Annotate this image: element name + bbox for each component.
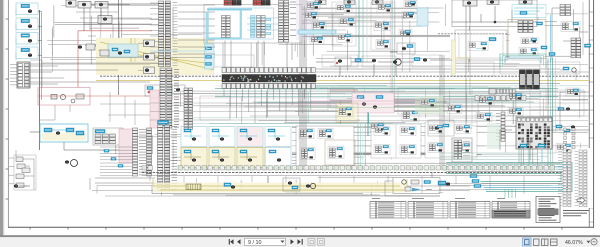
main harness connector X2 column A — [160, 68, 165, 128]
toolbar zoom-out button — [591, 239, 597, 245]
connector P1 — [10, 62, 30, 88]
green tint left of matrix — [487, 123, 500, 149]
sensor S1 top — [184, 129, 201, 141]
vertical bus bundle right-center — [391, 0, 395, 110]
cluster G7 — [400, 127, 416, 136]
long wire y190 — [92, 190, 470, 192]
cell grid right — [265, 148, 291, 168]
sensor cluster C2 — [304, 12, 318, 20]
harness loop drops — [505, 189, 516, 198]
wire bundle left vertical — [40, 10, 42, 150]
wire mesh zone top-right — [454, 2, 588, 72]
toolbar zoom dropdown — [587, 241, 591, 244]
magenta wires mid — [150, 98, 440, 108]
yellow harness band — [153, 183, 407, 193]
terminal strip TB1 bottom row — [222, 84, 315, 89]
teal vertical pair — [359, 0, 367, 62]
manifold connector row — [489, 89, 515, 95]
junction box — [66, 0, 76, 7]
cyan tags far right — [541, 46, 555, 56]
toolbar view icon 2 — [534, 239, 540, 245]
schematic border left — [7, 0, 9, 227]
cyan tag R7 — [585, 44, 591, 47]
long wire bottom — [16, 186, 152, 194]
tan box mid — [325, 140, 355, 165]
control block A1 — [30, 124, 88, 142]
dashed bus wire — [100, 75, 589, 77]
relay RL2 — [71, 99, 75, 103]
sensor cluster C4 — [310, 36, 324, 44]
connector X3 — [184, 88, 193, 130]
component row D4 — [393, 59, 401, 65]
component boxes left of X1 — [138, 40, 155, 74]
toolbar zoom text — [565, 240, 583, 246]
teal bundle mid — [358, 124, 365, 170]
ECU wire drops — [225, 41, 292, 69]
notes box — [536, 197, 560, 223]
ECM left wires — [100, 147, 133, 176]
top edge box T1 — [315, 0, 326, 5]
cluster right edge C — [558, 108, 570, 111]
enclosure box top-right — [452, 0, 537, 27]
gray bus pair upper — [316, 66, 589, 72]
toolbar icon expand — [318, 239, 325, 246]
grid outlines G2 — [425, 122, 477, 158]
green tint region — [415, 96, 443, 114]
component G1 — [14, 185, 28, 188]
pink panel ECM — [119, 129, 133, 163]
yellow cells region — [181, 148, 265, 168]
sensor S7 bottom — [240, 150, 257, 162]
ECM connector tall — [158, 121, 178, 191]
inline connector Y1 — [186, 184, 201, 190]
harness loop tags — [470, 175, 481, 188]
component S1 — [78, 44, 95, 50]
ECU U1 socket cells B — [265, 19, 271, 35]
cluster G2 — [318, 129, 333, 139]
connector P9 — [560, 5, 571, 16]
matrix cyan tags — [520, 144, 545, 147]
top edge box T3 — [372, 0, 383, 5]
toolbar first-page button — [229, 239, 233, 245]
wire mesh zone top-left — [47, 5, 215, 72]
sensor cluster R6 — [561, 22, 580, 32]
yellow strip right — [452, 40, 471, 74]
cluster right edge D — [556, 125, 575, 132]
matrix side ladder — [496, 112, 505, 141]
cyan dot ECM1 — [104, 150, 109, 153]
sensor cluster R2 — [521, 38, 538, 44]
title text block — [563, 211, 589, 216]
connector P20 column — [558, 150, 571, 207]
red power wire — [78, 31, 152, 88]
vertical bus bundle center — [300, 0, 306, 170]
ECU U1 socket column — [251, 16, 256, 38]
wire mesh zone mid — [157, 85, 588, 124]
switch cluster SW — [9, 150, 36, 190]
schematic border right inner — [588, 0, 590, 227]
green row drops — [150, 176, 524, 194]
box far right mid — [428, 120, 454, 136]
yellow harness region — [96, 38, 214, 75]
pin grid block R1 — [518, 21, 543, 33]
sensor cluster C13 — [399, 30, 412, 37]
solenoid unit M1 — [16, 3, 42, 17]
terminal strip TB1 body — [222, 75, 316, 83]
relay K2 — [95, 2, 108, 9]
main harness connector X2 labels — [174, 69, 179, 127]
ECU module U1 outline — [204, 5, 302, 44]
cluster mid F1 — [478, 97, 494, 106]
component Y2 — [224, 183, 235, 189]
solenoid unit M3 — [16, 33, 42, 47]
cluster G8 — [400, 145, 416, 155]
ECU U1 pin field B — [257, 16, 266, 38]
harness frame wire — [152, 185, 363, 194]
wire mesh zone lower — [116, 127, 588, 170]
solenoid unit M4 — [16, 47, 42, 61]
cluster mid F2 — [476, 113, 492, 122]
toolbar page field — [245, 238, 286, 246]
component row D3 — [372, 59, 376, 62]
main harness connector X1 labels — [173, 2, 178, 65]
wire drop K2 — [100, 8, 102, 16]
sensor cluster C12 — [402, 12, 415, 19]
wire block A1 drop — [64, 142, 130, 150]
connector P10 — [571, 38, 581, 58]
toolbar top border — [0, 235, 600, 237]
pink panel X2 — [150, 90, 159, 128]
long wire y196 — [105, 195, 440, 197]
sensor cluster C3 — [312, 22, 326, 30]
sensor cluster C9 — [374, 22, 390, 31]
cluster mid F4 — [508, 108, 523, 116]
sensor cluster C7 — [337, 34, 352, 43]
sensor S6 bottom — [212, 150, 229, 162]
junction block J5 — [463, 0, 477, 6]
sensor cluster C1 — [306, 2, 320, 10]
toolbar icon shrink — [308, 239, 315, 246]
relay K1 — [78, 2, 91, 9]
connector P22 rows — [564, 128, 576, 148]
cyan band beside X1 — [205, 44, 215, 69]
relay RL1 — [51, 94, 66, 99]
solenoid unit M2 — [16, 18, 42, 32]
connector P21 column — [575, 150, 588, 207]
wires y57-63 — [30, 58, 215, 64]
block mid G0 — [296, 126, 354, 166]
matrix output bundle — [519, 149, 542, 167]
wire mesh zone bottom — [162, 177, 561, 196]
cluster mid E2 — [402, 111, 419, 122]
wire connector fan — [30, 64, 150, 84]
cluster mid E5 — [447, 105, 462, 114]
cluster G1 — [299, 129, 314, 139]
main harness connector X1 column A — [159, 1, 164, 67]
motor M5 — [65, 160, 78, 167]
wires matrix — [500, 130, 589, 160]
long wires y103-118 — [150, 103, 589, 120]
vertical bus bundle x440 — [440, 55, 444, 170]
sensor S3 top — [240, 129, 257, 141]
pink cell tint — [238, 127, 263, 146]
cluster G12 — [455, 143, 471, 153]
enclosure outlines — [200, 14, 584, 120]
vertical wire x466 — [466, 0, 470, 130]
main harness connector X2 column B — [167, 68, 172, 128]
pink panel glyphs — [362, 103, 377, 109]
cluster right edge A — [563, 67, 576, 72]
toolbar next-page button — [291, 239, 294, 244]
toolbar last-page button — [298, 239, 303, 245]
terminal row green — [142, 166, 554, 170]
svg-text:46.07%: 46.07% — [565, 240, 583, 246]
cyan vertical right — [550, 15, 552, 62]
cyan band center — [298, 30, 336, 34]
sensor cluster R4 — [468, 42, 488, 51]
component S3 — [118, 50, 130, 55]
connector P12 — [452, 138, 472, 162]
cluster G4 — [328, 147, 344, 159]
ECU U1 pin field A — [222, 16, 231, 38]
valve manifold nest — [500, 54, 546, 68]
cluster mid E1 — [338, 107, 353, 117]
grid outlines right-mid — [472, 88, 530, 126]
component cluster B1 — [145, 85, 160, 96]
ECU U1 header strip A — [224, 0, 241, 5]
terminal strip TB1 top row — [222, 68, 315, 73]
wire right edge — [552, 8, 588, 60]
ECU U1 header strip B — [253, 0, 270, 5]
cluster right edge B — [566, 88, 580, 96]
schematic border bottom — [8, 226, 594, 228]
top edge box T2 — [344, 0, 355, 5]
sensor cluster C6 — [339, 18, 355, 27]
sensor cluster C11 — [404, 1, 417, 7]
cluster G10 — [428, 143, 444, 153]
toolbar background — [0, 237, 600, 247]
wire mesh zone top-center — [219, 4, 450, 72]
component row D2 — [355, 59, 361, 62]
sensor cell grid bottom outlines — [181, 148, 263, 168]
cluster right H1 — [556, 144, 572, 153]
sensor cell grid top outlines — [181, 127, 291, 147]
component row D1 — [335, 57, 351, 66]
sensor S2 top — [212, 129, 229, 141]
vertical wires right — [548, 58, 553, 168]
border ticks right — [589, 12, 593, 222]
wire top mesh — [76, 4, 160, 40]
top edge box T5 — [519, 0, 532, 4]
wire drop K1 — [83, 8, 85, 31]
cyan region right — [512, 5, 546, 18]
component row wires — [316, 60, 452, 76]
sensor cluster C10 — [376, 40, 390, 49]
cyan tag R5 — [489, 38, 496, 41]
teal drop mid — [367, 112, 369, 136]
sensor S5 bottom — [184, 150, 201, 162]
cluster G9 — [428, 125, 444, 134]
bus thin below — [142, 174, 564, 176]
ECM bottom wires — [90, 178, 180, 190]
pink panel center — [352, 93, 394, 113]
sensor cluster C5 — [336, 4, 352, 13]
sensor cluster C8 — [377, 4, 392, 13]
junction box bottom — [385, 173, 440, 196]
teal tinted region — [108, 44, 138, 57]
pink panel tags — [357, 96, 383, 99]
right edge wires — [560, 70, 588, 110]
cyan vertical band — [417, 8, 428, 26]
teal verticals right — [553, 58, 556, 132]
box right mid — [508, 20, 546, 59]
harness wires right — [178, 5, 215, 54]
diode D1 — [76, 94, 84, 99]
yellow bus wire — [96, 80, 589, 82]
vertical bus pair left — [119, 0, 122, 95]
legend dark rows — [492, 210, 530, 218]
valve manifold block — [520, 70, 540, 89]
border ticks left — [6, 19, 9, 199]
cluster G3 — [300, 148, 315, 160]
lavender tint top center — [296, 0, 314, 40]
main harness connector X1 column B — [165, 1, 170, 67]
toolbar view icon 3 — [542, 239, 549, 245]
cluster mid E4 — [420, 99, 436, 108]
legend headers — [372, 198, 505, 200]
connector X1 wire stubs — [150, 3, 159, 64]
cluster G6 — [374, 145, 390, 155]
gray bus wire — [222, 82, 560, 84]
component cluster B2 — [172, 85, 185, 94]
component S2 — [100, 48, 118, 56]
component row D5 — [414, 58, 427, 62]
valve cluster V1 — [390, 43, 415, 54]
component Y5 — [407, 181, 470, 186]
terminal strip wire fan — [224, 89, 311, 123]
white underlays — [94, 0, 594, 223]
arrow symbol — [577, 197, 585, 203]
sensor S4 top — [268, 129, 285, 141]
ECM pin column A — [133, 128, 147, 176]
harness feed wires — [440, 153, 556, 159]
ECM module block — [93, 128, 123, 145]
terminal matrix block — [516, 117, 552, 149]
nested harness loop — [446, 163, 572, 192]
grid outlines G — [371, 124, 421, 158]
cluster mid E3 — [370, 123, 385, 132]
toolbar prev-page button — [237, 239, 240, 244]
component Y4 — [306, 183, 316, 188]
yellow harness wires — [153, 179, 407, 190]
ECM pin column B — [147, 128, 152, 176]
cyan dot ECM3 — [118, 165, 123, 168]
wires right mid — [456, 92, 589, 130]
cluster G5 — [374, 127, 390, 136]
cluster mid F3 — [508, 93, 523, 101]
schematic border right outer — [593, 0, 595, 228]
nested boxes right-mid — [455, 30, 507, 60]
toolbar view icon selected — [523, 238, 532, 246]
teal wire bundle — [215, 86, 558, 97]
cyan trace loop — [150, 9, 252, 51]
red relay loop wire — [38, 88, 90, 106]
DIN rail row — [475, 96, 526, 101]
border ticks bottom — [30, 227, 562, 229]
wires mid — [330, 92, 589, 106]
component Y3 — [283, 178, 300, 191]
vertical drop Y — [267, 176, 269, 183]
breaker CB1 — [98, 16, 112, 24]
bus dashed thick — [142, 172, 564, 174]
relay loop drop wire — [40, 105, 70, 120]
sensor cluster R3 — [519, 48, 538, 56]
cluster G11 — [455, 125, 471, 134]
viewer background strip left — [0, 0, 4, 236]
top edge box T4 — [487, 0, 499, 5]
toolbar view icon 4 — [551, 239, 558, 245]
red wire mid — [38, 95, 150, 97]
legend table — [370, 202, 530, 219]
cyan dot ECM2 — [111, 158, 116, 161]
yellow cell mid — [336, 103, 358, 122]
ECU U1 right connector — [279, 1, 297, 43]
cyan wires ECU — [247, 18, 278, 30]
grid outlines top-center — [332, 2, 395, 50]
wires mid-left — [42, 60, 150, 125]
red wire mid-right — [330, 89, 358, 91]
svg-text:9 / 10: 9 / 10 — [248, 240, 262, 246]
dashed wire right — [438, 33, 508, 35]
wire junction fan — [452, 6, 538, 23]
